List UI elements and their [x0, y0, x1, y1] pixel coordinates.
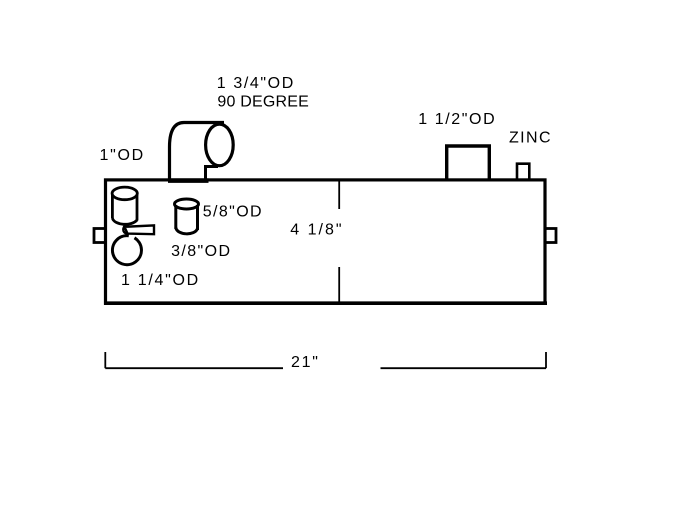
svg-text:1 1/2"OD: 1 1/2"OD: [418, 111, 496, 128]
elbow outlet ellipse: [206, 124, 234, 166]
tank body outline 21in cooler: [106, 180, 546, 303]
svg-text:90 DEGREE: 90 DEGREE: [217, 94, 309, 111]
bar left end curve: [123, 226, 127, 234]
svg-text:ZINC: ZINC: [509, 130, 552, 147]
svg-text:5/8"OD: 5/8"OD: [203, 204, 263, 221]
width dimension left line: [105, 367, 283, 369]
right mounting tab: [545, 229, 556, 243]
width dimension right line: [381, 367, 547, 369]
fitting 5/8in OD cylinder body: [174, 205, 177, 229]
svg-text:1 3/4"OD: 1 3/4"OD: [217, 75, 295, 92]
svg-text:3/8"OD: 3/8"OD: [171, 243, 231, 260]
width dimension right tick: [545, 352, 547, 368]
fitting 5/8in OD cylinder top ellipse: [175, 199, 199, 209]
circle 1 1/4in OD: [112, 236, 141, 265]
tank bottom edge (thicker): [104, 301, 547, 305]
fitting 1in OD cylinder body: [111, 195, 114, 218]
fitting 1in OD cylinder top ellipse: [112, 187, 137, 200]
height dimension line upper segment: [338, 179, 340, 209]
width dimension left tick: [104, 352, 106, 368]
zinc anode square: [517, 164, 529, 180]
elbow 1 3/4in OD 90 degree body: [170, 123, 225, 182]
svg-text:4 1/8": 4 1/8": [290, 222, 343, 239]
height dimension line lower segment: [338, 267, 340, 303]
elbow lower step: [206, 167, 219, 182]
svg-text:1"OD: 1"OD: [100, 147, 145, 164]
left mounting tab: [94, 229, 106, 243]
flat bar 3/8in OD: [125, 225, 155, 234]
svg-text:1 1/4"OD: 1 1/4"OD: [121, 272, 200, 289]
svg-text:21": 21": [291, 354, 320, 371]
fitting 1 1/2in OD rectangle: [447, 146, 490, 180]
elbow base weld line: [168, 178, 209, 183]
